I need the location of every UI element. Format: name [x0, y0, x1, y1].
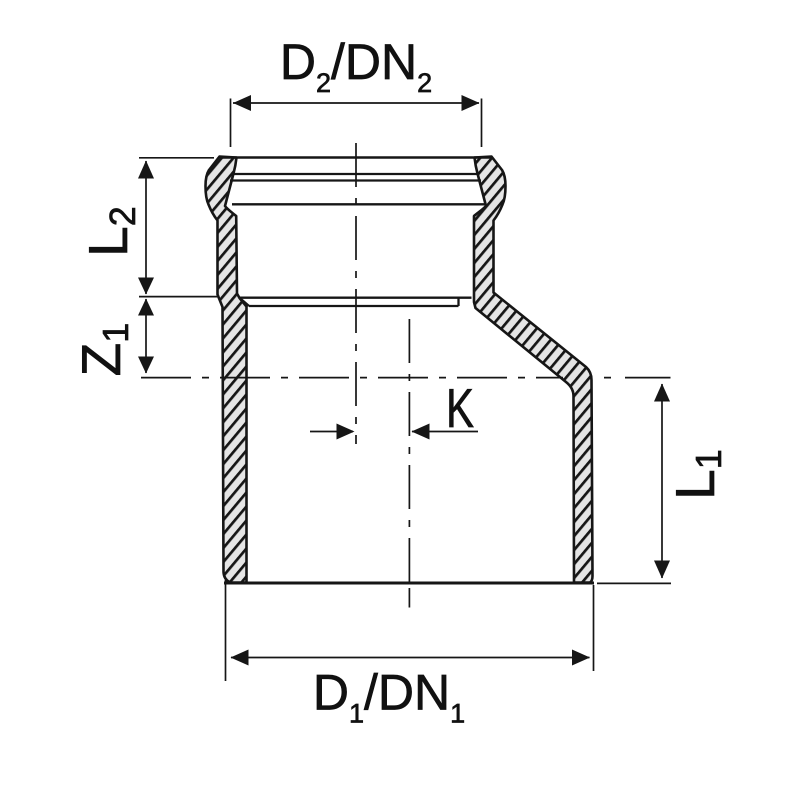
dimension L2 — [77, 158, 218, 297]
bottom edge — [224, 582, 594, 585]
socket bottom line lower — [249, 305, 459, 307]
left wall — [206, 157, 247, 583]
dimension Z1 — [70, 299, 154, 377]
dimension D2/DN2 — [231, 34, 482, 147]
right wall with slope — [474, 157, 593, 583]
dimension K — [310, 377, 478, 440]
bottom pipe centerline — [408, 319, 410, 582]
socket bottom step right vertical — [457, 298, 459, 306]
dimension D1/DN1 — [226, 580, 594, 729]
socket inner line 1 — [234, 173, 479, 175]
dimension L1 — [597, 384, 729, 584]
socket inner line 3 — [232, 203, 485, 205]
socket bottom line upper — [240, 297, 472, 299]
socket inner line 2 — [230, 179, 481, 181]
horizontal centerline — [141, 377, 563, 379]
svg-text:D2/DN2: D2/DN2 — [280, 34, 432, 98]
rim top line — [220, 156, 492, 159]
top pipe centerline — [355, 143, 357, 444]
socket bottom step left diagonal — [240, 298, 250, 306]
svg-text:K: K — [446, 377, 474, 439]
svg-text:D1/DN1: D1/DN1 — [313, 665, 465, 729]
